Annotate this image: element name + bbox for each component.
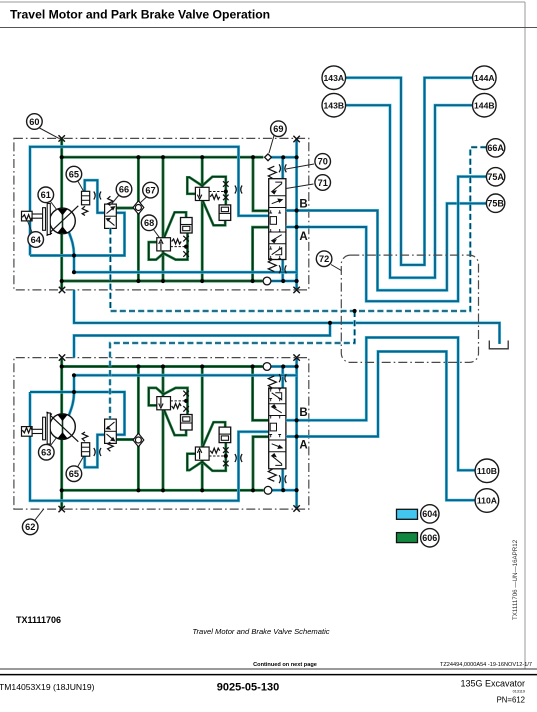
wire port B bottom to 110B (286, 338, 478, 471)
svg-text:013119: 013119 (513, 690, 525, 694)
svg-text:65: 65 (69, 169, 79, 179)
wire dashed pilot branch to bottom block (110, 311, 355, 419)
leader 70 (286, 164, 314, 169)
leader 62 (35, 509, 44, 520)
callout 143A (322, 66, 346, 90)
svg-text:143B: 143B (324, 100, 345, 110)
callout 62 (22, 519, 38, 535)
callout 69 (271, 121, 287, 137)
svg-text:9025-05-130: 9025-05-130 (217, 682, 279, 694)
svg-text:604: 604 (422, 509, 437, 519)
leader 68 (154, 230, 160, 238)
title underline (0, 27, 537, 29)
tank bracket (489, 341, 508, 349)
svg-text:64: 64 (31, 235, 42, 245)
svg-text:TX1111706: TX1111706 (16, 615, 61, 625)
svg-text:75A: 75A (487, 172, 504, 182)
svg-text:606: 606 (422, 533, 437, 543)
callout 75B (486, 194, 504, 212)
svg-text:61: 61 (41, 190, 51, 200)
terminal circle bottom block lower bus (264, 486, 272, 494)
svg-text:PN=612: PN=612 (497, 696, 525, 705)
leader 66 (112, 195, 120, 204)
motor block 60 interior (14, 135, 309, 293)
callout 67 (143, 182, 159, 198)
svg-text:110B: 110B (477, 466, 497, 476)
callout 144B (473, 93, 497, 117)
leader 63 (51, 437, 58, 446)
wire port B top to 75B (286, 203, 493, 290)
svg-text:66A: 66A (487, 143, 504, 153)
svg-text:Continued on next page: Continued on next page (253, 662, 317, 668)
svg-text:69: 69 (273, 124, 283, 134)
svg-text:TM14053X19 (18JUN19): TM14053X19 (18JUN19) (0, 682, 95, 692)
svg-text:A: A (299, 231, 307, 243)
svg-text:B: B (299, 407, 307, 419)
leader 61 (51, 202, 58, 211)
leader 72 (331, 265, 341, 271)
svg-text:110A: 110A (477, 496, 497, 506)
callout 63 (39, 444, 55, 460)
wire 143A to 144A through swivel (334, 78, 482, 265)
junction dots external (328, 321, 332, 325)
leader 65 bottom (78, 457, 84, 468)
page frame top rule (0, 1, 525, 3)
svg-text:TX1111706 —UN—16APR12: TX1111706 —UN—16APR12 (512, 539, 519, 620)
svg-text:Travel Motor and Park Brake Va: Travel Motor and Park Brake Valve Operat… (10, 8, 270, 22)
svg-text:71: 71 (318, 178, 328, 188)
leader 65 (78, 181, 84, 192)
callout 110A (475, 489, 499, 513)
svg-text:70: 70 (318, 157, 328, 167)
leader 60 (40, 128, 60, 138)
svg-text:144A: 144A (474, 73, 495, 83)
callout 144A (473, 66, 497, 90)
svg-text:75B: 75B (487, 198, 504, 208)
callout 66 (116, 181, 132, 197)
leader 71 (286, 184, 314, 189)
svg-text:62: 62 (25, 522, 35, 532)
legend swatch 604 (397, 509, 418, 519)
wire drain top block to tank bracket (74, 290, 500, 344)
terminal diamond 69 (top block only) (265, 154, 272, 161)
page frame right rule (524, 2, 526, 669)
svg-text:144B: 144B (474, 100, 495, 110)
rotary manifold box 72 (341, 255, 478, 362)
svg-text:TZ24494,0000A54 -19-16NOV12-1/: TZ24494,0000A54 -19-16NOV12-1/7 (440, 662, 532, 668)
callout 68 (141, 215, 157, 231)
callout 143B (322, 93, 346, 117)
callout 70 (315, 154, 331, 170)
legend callout 604 (421, 505, 439, 523)
legend callout 606 (421, 529, 439, 547)
svg-text:67: 67 (145, 185, 155, 195)
svg-text:A: A (299, 440, 307, 452)
callout 75A (486, 168, 504, 186)
svg-text:68: 68 (144, 218, 154, 228)
wire drain bottom block joining (74, 323, 330, 358)
svg-text:143A: 143A (324, 73, 345, 83)
callout 66A (486, 139, 504, 157)
leader 69 (269, 136, 274, 154)
footer rules (0, 668, 537, 670)
wire port A top to 75A (286, 177, 493, 302)
leader 67 (140, 197, 147, 204)
svg-text:63: 63 (41, 448, 51, 458)
svg-text:65: 65 (69, 469, 79, 479)
callout 65 bottom (66, 466, 82, 482)
svg-text:60: 60 (29, 117, 39, 127)
svg-text:B: B (299, 198, 307, 210)
callout 65 (66, 166, 82, 182)
callout 72 (316, 251, 332, 267)
wire dashed pilot network to 66A (110, 147, 488, 311)
wire 143B to 144B through swivel (334, 105, 482, 278)
svg-text:72: 72 (319, 254, 329, 264)
wire port A bottom to 110A (286, 352, 478, 501)
motor block 62 interior (mirrored) (14, 354, 309, 512)
callout 61 (38, 187, 54, 203)
legend swatch 606 (397, 533, 418, 543)
callout 110B (475, 459, 499, 483)
svg-text:135G Excavator: 135G Excavator (460, 679, 525, 689)
svg-text:66: 66 (119, 185, 129, 195)
callout 64 (28, 232, 44, 248)
leader 64 (28, 221, 33, 234)
svg-text:Travel Motor and Brake Valve S: Travel Motor and Brake Valve Schematic (192, 627, 329, 636)
callout 71 (315, 175, 331, 191)
callout 60 (27, 114, 43, 130)
